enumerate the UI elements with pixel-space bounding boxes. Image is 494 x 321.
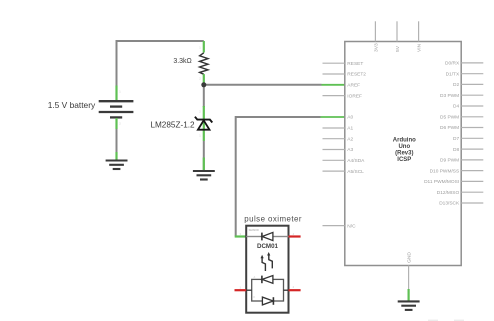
LED D3 (points left, on top edge) <box>262 276 273 284</box>
pin AREF (green connected stub) <box>322 84 345 86</box>
node GND pin (green) <box>408 289 410 301</box>
pin red stub LED left <box>235 289 247 291</box>
svg-text:A0: A0 <box>347 115 353 121</box>
svg-text:D11 PWM/MOSI: D11 PWM/MOSI <box>424 179 459 185</box>
top pin 5V <box>396 21 398 41</box>
node resistor bottom pin (green) <box>203 74 205 83</box>
node pulse oximeter pin 3 (green stub) <box>235 235 247 237</box>
svg-text:ICSP: ICSP <box>397 157 411 163</box>
photodiode D2 <box>246 232 288 240</box>
svg-text:D10 PWM/SS: D10 PWM/SS <box>430 168 460 174</box>
svg-text:D3 PWM: D3 PWM <box>440 93 459 99</box>
wire loop right to box edge <box>284 289 289 291</box>
svg-text:Arduino: Arduino <box>393 138 416 144</box>
ground GND3 <box>398 301 420 310</box>
wire pulse oximeter to A0 <box>236 117 321 237</box>
svg-text:A5/SCL: A5/SCL <box>347 169 364 175</box>
top pin VIN <box>418 21 420 41</box>
light arrow 2 <box>267 252 272 268</box>
left pins <box>323 63 345 225</box>
svg-text:3V3: 3V3 <box>373 43 379 52</box>
pin red stub photodiode cathode <box>289 235 301 237</box>
pin red stub LED right <box>289 289 301 291</box>
wire junction to zener <box>203 85 205 107</box>
svg-text:DCM01: DCM01 <box>257 243 279 250</box>
svg-text:(Rev3): (Rev3) <box>395 151 413 157</box>
wire battery- to ground <box>116 118 118 160</box>
resistor R1 <box>200 53 208 75</box>
svg-text:LM285Z-1.2: LM285Z-1.2 <box>150 121 195 130</box>
ground GND2 <box>193 171 215 180</box>
svg-text:D2: D2 <box>453 82 459 88</box>
node ground pin (green) <box>203 158 205 171</box>
svg-text:D12/MISO: D12/MISO <box>437 190 460 196</box>
svg-text:D7: D7 <box>453 136 459 142</box>
node battery minus pin (green) <box>115 118 117 129</box>
Arduino U1 box <box>345 42 461 266</box>
node ground pin (green) <box>115 152 117 160</box>
right pins <box>461 63 483 203</box>
svg-text:D8: D8 <box>453 147 459 153</box>
svg-text:A1: A1 <box>347 126 353 132</box>
Arduino name <box>393 138 416 163</box>
wire junction to AREF <box>204 84 322 86</box>
svg-text:Uno: Uno <box>398 144 410 150</box>
node zener pins (green) <box>203 106 205 141</box>
svg-text:pulse oximeter: pulse oximeter <box>244 214 302 223</box>
svg-text:AREF: AREF <box>347 83 360 89</box>
ground GND1 <box>106 161 128 170</box>
svg-text:SENSOR: SENSOR <box>249 229 259 232</box>
svg-text:3.3kΩ: 3.3kΩ <box>173 58 191 65</box>
diode D1 zener <box>195 117 212 130</box>
svg-text:D9 PWM: D9 PWM <box>440 158 459 164</box>
svg-text:N/C: N/C <box>347 223 356 229</box>
bottom pin GND <box>408 266 410 290</box>
svg-text:K: K <box>254 295 256 299</box>
svg-text:A: A <box>254 275 256 279</box>
svg-text:RESET2: RESET2 <box>347 72 366 78</box>
svg-text:VIN: VIN <box>417 43 423 52</box>
svg-text:IOREF: IOREF <box>347 93 362 99</box>
svg-text:A3: A3 <box>347 147 353 153</box>
faint pin number marks <box>119 46 294 300</box>
node battery plus pin (green) <box>115 86 117 102</box>
svg-text:GND: GND <box>407 252 413 263</box>
wire battery+ to resistor top <box>117 41 204 101</box>
svg-text:5V: 5V <box>395 45 401 52</box>
wire zener to ground <box>203 141 205 171</box>
faint watermark remnants <box>428 320 438 321</box>
top pin 3V3 <box>374 21 376 41</box>
node resistor top pin (green) <box>203 41 205 53</box>
svg-text:D0/RX: D0/RX <box>445 61 460 67</box>
junction node <box>201 82 206 87</box>
svg-text:A4/SDA: A4/SDA <box>347 158 365 164</box>
pin A0 (green connected stub) <box>321 116 345 118</box>
svg-text:D6 PWM: D6 PWM <box>440 125 459 131</box>
svg-text:D1/TX: D1/TX <box>446 71 460 77</box>
svg-text:A2: A2 <box>347 136 353 142</box>
light arrow 1 <box>261 255 266 271</box>
LED pair loop rectangle <box>252 279 284 301</box>
wire box edge to loop left <box>246 289 252 291</box>
svg-text:D13/SCK: D13/SCK <box>439 201 460 207</box>
svg-text:D4: D4 <box>453 104 459 110</box>
svg-text:RESET: RESET <box>347 61 363 67</box>
svg-text:D5 PWM: D5 PWM <box>440 115 459 121</box>
pulse oximeter part P1 box <box>246 226 288 313</box>
LED D4 (points right, on bottom edge) <box>262 297 273 305</box>
svg-text:1.5 V battery: 1.5 V battery <box>48 100 96 110</box>
battery BT1 <box>99 101 134 117</box>
